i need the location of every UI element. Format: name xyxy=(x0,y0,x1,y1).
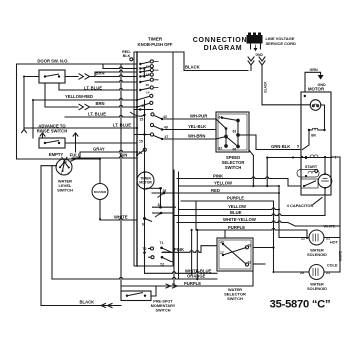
svg-text:SERVICE CORD: SERVICE CORD xyxy=(266,41,296,46)
svg-text:TAN: TAN xyxy=(119,153,127,158)
svg-text:KNOB-PUSH OFF: KNOB-PUSH OFF xyxy=(138,42,173,47)
svg-text:TIMER: TIMER xyxy=(148,37,163,42)
svg-text:MOMENTARY: MOMENTARY xyxy=(151,304,176,308)
svg-text:LT. BLUE: LT. BLUE xyxy=(84,86,102,91)
svg-text:22: 22 xyxy=(301,237,305,241)
svg-text:WHITE: WHITE xyxy=(324,225,336,229)
svg-text:CONNECTION: CONNECTION xyxy=(193,37,248,44)
svg-text:SOLENOID: SOLENOID xyxy=(307,253,327,257)
svg-text:LT. BLUE: LT. BLUE xyxy=(113,123,131,128)
svg-text:YELLOW: YELLOW xyxy=(228,204,246,209)
svg-text:WATER: WATER xyxy=(310,283,324,287)
svg-text:19: 19 xyxy=(248,261,252,265)
svg-text:BLK: BLK xyxy=(123,54,131,58)
svg-text:START: START xyxy=(305,165,318,169)
svg-text:T1: T1 xyxy=(160,241,164,245)
svg-text:43: 43 xyxy=(163,115,167,119)
svg-text:WH-PUR: WH-PUR xyxy=(190,114,207,119)
svg-text:5: 5 xyxy=(297,145,299,149)
svg-text:YELLOW-RED: YELLOW-RED xyxy=(65,94,93,99)
svg-text:YEL-BLK: YEL-BLK xyxy=(188,124,206,129)
svg-text:32: 32 xyxy=(158,203,162,207)
svg-text:DIAGRAM: DIAGRAM xyxy=(204,45,243,52)
svg-text:PURPLE: PURPLE xyxy=(227,196,244,201)
svg-text:EMPTY: EMPTY xyxy=(49,152,64,157)
svg-text:PURPLE: PURPLE xyxy=(228,225,245,230)
svg-text:BN: BN xyxy=(311,134,316,138)
svg-text:SWITCH: SWITCH xyxy=(156,309,171,313)
svg-text:MOTOR: MOTOR xyxy=(139,181,152,185)
svg-text:PINK: PINK xyxy=(174,247,184,252)
svg-text:12: 12 xyxy=(146,64,150,68)
svg-text:67: 67 xyxy=(219,147,223,151)
svg-text:18: 18 xyxy=(248,244,252,248)
svg-text:20: 20 xyxy=(300,271,304,275)
svg-text:43: 43 xyxy=(220,241,224,245)
svg-text:20: 20 xyxy=(142,104,146,108)
svg-text:YELLOW: YELLOW xyxy=(214,181,232,186)
svg-text:RINSE SWITCH: RINSE SWITCH xyxy=(37,129,67,134)
svg-text:63: 63 xyxy=(233,130,237,134)
svg-text:BRN: BRN xyxy=(96,101,105,106)
svg-text:26: 26 xyxy=(146,83,150,87)
svg-text:PURPLE: PURPLE xyxy=(184,281,201,286)
svg-text:LT. BLUE: LT. BLUE xyxy=(88,112,106,117)
svg-text:35-5870 “C”: 35-5870 “C” xyxy=(270,299,331,311)
svg-text:RED: RED xyxy=(211,188,220,193)
svg-text:WH-BRN: WH-BRN xyxy=(188,134,205,139)
svg-text:WATER: WATER xyxy=(310,249,324,253)
svg-text:WHITE: WHITE xyxy=(339,251,343,261)
svg-text:SWITCH: SWITCH xyxy=(227,296,243,301)
svg-text:ORANGE: ORANGE xyxy=(187,274,206,279)
svg-text:PRE-SPOT: PRE-SPOT xyxy=(153,300,173,304)
svg-text:6: 6 xyxy=(142,223,144,227)
svg-text:BLUE: BLUE xyxy=(230,210,242,215)
svg-text:T2: T2 xyxy=(143,247,147,251)
svg-text:64: 64 xyxy=(219,116,223,120)
svg-text:47: 47 xyxy=(165,135,169,139)
svg-text:COLD: COLD xyxy=(327,264,338,268)
svg-text:GRAY: GRAY xyxy=(93,147,105,152)
svg-text:66: 66 xyxy=(233,148,237,152)
svg-text:GND: GND xyxy=(256,53,264,57)
svg-text:FULL: FULL xyxy=(70,153,81,158)
svg-text:15: 15 xyxy=(146,72,150,76)
svg-text:WHITE: WHITE xyxy=(114,215,128,220)
svg-text:4 CAPACITOR: 4 CAPACITOR xyxy=(287,203,314,208)
svg-text:21: 21 xyxy=(326,271,330,275)
svg-text:BLACK: BLACK xyxy=(264,81,268,93)
svg-text:17: 17 xyxy=(220,251,224,255)
svg-text:15: 15 xyxy=(140,118,144,122)
svg-text:BUZZER: BUZZER xyxy=(94,190,107,194)
svg-text:SWITCH: SWITCH xyxy=(225,165,242,170)
svg-text:BLACK: BLACK xyxy=(80,300,95,305)
svg-text:2: 2 xyxy=(292,156,294,160)
svg-text:14: 14 xyxy=(146,91,150,95)
svg-text:81: 81 xyxy=(139,151,143,155)
svg-text:PINK: PINK xyxy=(213,173,223,178)
svg-text:1: 1 xyxy=(335,156,337,160)
svg-text:DOOR SW. N.O.: DOOR SW. N.O. xyxy=(37,59,68,64)
svg-text:SWITCH: SWITCH xyxy=(57,188,73,193)
svg-text:WHITE-YELLOW: WHITE-YELLOW xyxy=(223,217,256,222)
svg-text:38: 38 xyxy=(163,189,167,193)
svg-text:T2: T2 xyxy=(160,263,164,267)
svg-text:GRN-BLK: GRN-BLK xyxy=(271,144,290,149)
svg-text:BLACK: BLACK xyxy=(185,65,200,70)
svg-text:HOT: HOT xyxy=(330,241,339,245)
svg-text:15: 15 xyxy=(139,140,143,144)
svg-text:GRN: GRN xyxy=(310,68,319,72)
svg-text:49: 49 xyxy=(164,126,168,130)
svg-text:MOTOR: MOTOR xyxy=(308,87,325,92)
svg-text:BRN: BRN xyxy=(96,71,105,76)
svg-text:SOLENOID: SOLENOID xyxy=(307,287,327,291)
